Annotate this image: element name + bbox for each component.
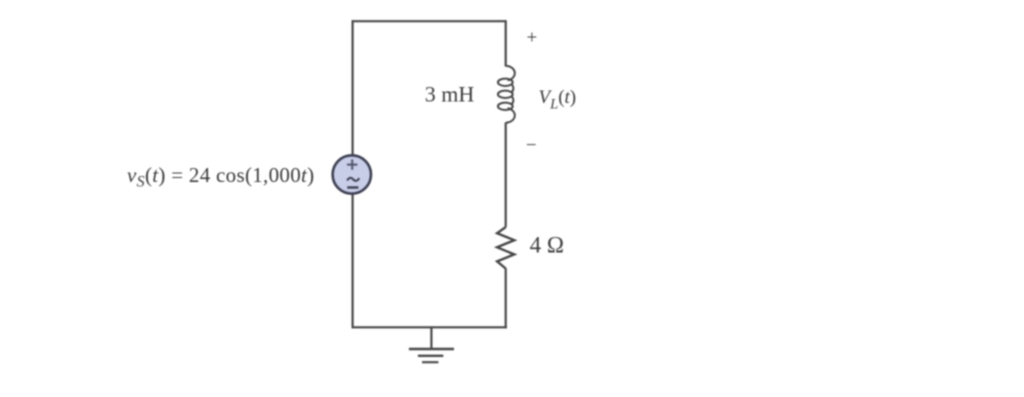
svg-text:4 Ω: 4 Ω <box>530 233 564 258</box>
svg-text:−: − <box>526 135 537 156</box>
wire right lower (resistor to bottom wire) <box>505 268 507 328</box>
wire top (from source top to inductor top) <box>353 20 506 22</box>
svg-text:+: + <box>527 28 538 49</box>
svg-text:VL(t): VL(t) <box>539 87 577 113</box>
inductor L1 3 mH (coil) <box>498 66 515 123</box>
resistor R1 4 ohm (zigzag) <box>497 227 514 268</box>
wire left upper (top wire down to source) <box>352 20 354 156</box>
wire bottom (left to right along bottom) <box>352 326 507 328</box>
voltage source VS (AC source circle) <box>333 155 371 193</box>
svg-text:vS(t) = 24 cos(1,000t): vS(t) = 24 cos(1,000t) <box>127 163 314 191</box>
wire right upper (top wire down to inductor) <box>505 20 507 66</box>
wire left lower (source down to bottom wire) <box>352 194 354 328</box>
svg-text:3 mH: 3 mH <box>425 82 475 107</box>
ground <box>409 327 454 362</box>
wire right middle (inductor to resistor) <box>505 123 507 228</box>
